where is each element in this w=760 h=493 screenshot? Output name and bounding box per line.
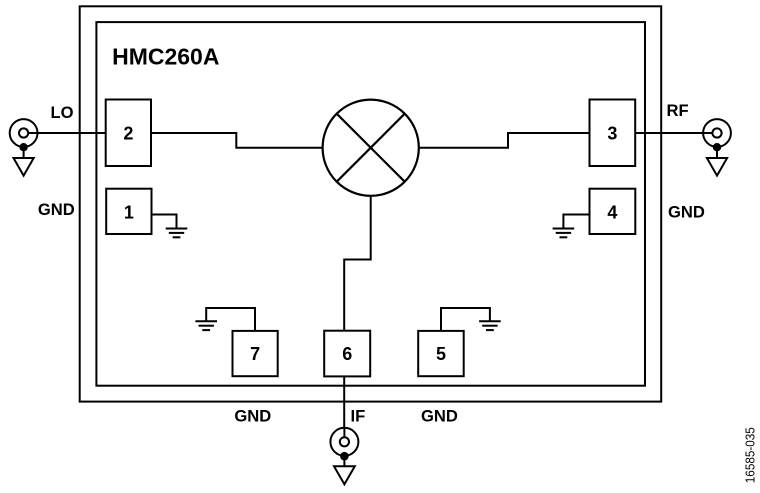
- wire mixer U1 to pin 3: [419, 133, 590, 148]
- svg-text:GND: GND: [421, 407, 458, 426]
- svg-text:GND: GND: [38, 200, 75, 219]
- svg-text:4: 4: [607, 202, 617, 222]
- ground (pin 7): [195, 321, 217, 330]
- wire pin 4 to ground: [563, 215, 589, 229]
- wire pin 5 to ground: [441, 308, 490, 331]
- pin 7: [233, 331, 278, 376]
- svg-text:7: 7: [250, 344, 260, 364]
- wire pin 7 to ground: [206, 308, 255, 331]
- ground (RF connector): [707, 147, 727, 175]
- ground (pin 5): [479, 321, 501, 330]
- connector J2 (RF): [702, 119, 731, 151]
- ground (IF connector): [334, 456, 355, 484]
- wire pin 1 to ground: [152, 215, 177, 229]
- device outline: [96, 22, 645, 386]
- pin 3: [590, 100, 636, 167]
- svg-text:6: 6: [342, 344, 352, 364]
- svg-text:5: 5: [436, 344, 446, 364]
- svg-text:GND: GND: [668, 203, 705, 222]
- svg-text:1: 1: [124, 202, 134, 222]
- ground (pin 4): [553, 229, 575, 238]
- ground (LO connector): [14, 147, 34, 175]
- connector J1 (LO): [10, 119, 39, 151]
- svg-text:HMC260A: HMC260A: [112, 44, 219, 70]
- wire mixer U1 to pin 6: [344, 196, 371, 331]
- wire LO to pin 2: [37, 132, 106, 134]
- svg-text:GND: GND: [234, 407, 271, 426]
- board outline: [80, 6, 662, 401]
- svg-text:LO: LO: [50, 103, 73, 122]
- wire pin 3 to RF: [635, 132, 703, 134]
- pin 1: [106, 189, 151, 234]
- wire pin 6 to IF: [343, 376, 345, 427]
- pin 5: [418, 331, 464, 376]
- svg-text:IF: IF: [351, 407, 366, 426]
- pin 6: [324, 331, 370, 377]
- wire pin 2 to mixer U1: [151, 133, 323, 148]
- pin 2: [106, 100, 151, 167]
- svg-text:16585-035: 16585-035: [743, 427, 758, 483]
- svg-text:2: 2: [123, 124, 133, 144]
- svg-text:3: 3: [607, 124, 617, 144]
- ground (pin 1): [166, 229, 188, 238]
- mixer U1: [323, 100, 419, 196]
- connector J3 (IF): [330, 427, 358, 461]
- svg-text:RF: RF: [667, 101, 689, 120]
- pin 4: [590, 189, 636, 234]
